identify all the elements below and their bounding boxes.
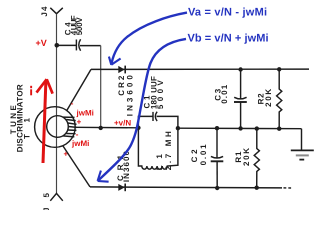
capacitor C1 branch — [138, 116, 178, 128]
node dot right of tank — [176, 126, 180, 130]
wire: middle rail right of tank — [178, 127, 302, 130]
wire: top rail — [91, 68, 309, 70]
wire: T1 center tap to C1/L1 left node — [76, 126, 139, 129]
svg-text:-: - — [76, 130, 79, 139]
svg-text:500V: 500V — [156, 79, 165, 109]
connector J5 — [50, 193, 63, 200]
svg-text:-: - — [71, 99, 74, 108]
diode CR2 — [118, 66, 125, 74]
blue annotation Va curve arrow — [109, 13, 187, 65]
svg-text:Vb = v/N + jwMi: Vb = v/N + jwMi — [188, 33, 269, 45]
red label i — [30, 86, 32, 88]
node dot on center tap — [99, 126, 103, 130]
node +V junction dot — [55, 43, 60, 48]
wire: C4 to corner — [80, 45, 101, 47]
wire: bottom rail — [90, 187, 293, 188]
svg-text:0.01: 0.01 — [220, 84, 229, 104]
ground symbol — [291, 150, 314, 159]
svg-text:+v/N: +v/N — [114, 119, 131, 128]
resistor R1 — [254, 129, 259, 188]
transformer T1 core outer — [35, 107, 76, 148]
svg-text:J4: J4 — [40, 6, 49, 17]
svg-text:+V: +V — [36, 38, 47, 48]
svg-text:jwMi: jwMi — [71, 139, 89, 148]
svg-text:20K: 20K — [242, 148, 251, 166]
wire: T1 top tap diagonal to top rail — [67, 69, 92, 111]
connector J4 — [50, 8, 63, 14]
capacitor C2 — [216, 128, 218, 188]
svg-text:20K: 20K — [264, 89, 273, 107]
wire: vertical C4 corner down to center-tap node — [100, 46, 102, 128]
diode CR1 — [118, 184, 125, 192]
capacitor C4 — [76, 39, 80, 51]
svg-text:500V: 500V — [75, 17, 84, 36]
svg-text:jwMi: jwMi — [76, 108, 94, 117]
inductor L1 — [138, 128, 178, 169]
transformer T1 secondary winding fan — [63, 117, 77, 137]
blue annotation Vb curve arrow — [98, 39, 186, 182]
red current arrow i — [37, 79, 53, 163]
node dot left of tank — [136, 126, 140, 130]
capacitor C3 — [240, 69, 242, 128]
wire: node to C4 — [57, 44, 76, 46]
svg-text:+: + — [77, 118, 82, 127]
svg-text:0.01: 0.01 — [199, 144, 208, 166]
node dot C2 bottom — [215, 186, 219, 190]
resistor R2 — [277, 69, 282, 128]
wire: T1 bottom tap diagonal to bottom rail — [63, 146, 90, 187]
node dot R1 bottom — [255, 186, 259, 190]
transformer T1 core inner — [47, 116, 69, 138]
wire: main vertical J4 to J5 through T1 — [56, 14, 58, 194]
wire: ground stem — [301, 129, 303, 150]
svg-text:Va = v/N - jwMi: Va = v/N - jwMi — [188, 7, 267, 19]
svg-text:T 1: T 1 — [23, 117, 32, 139]
